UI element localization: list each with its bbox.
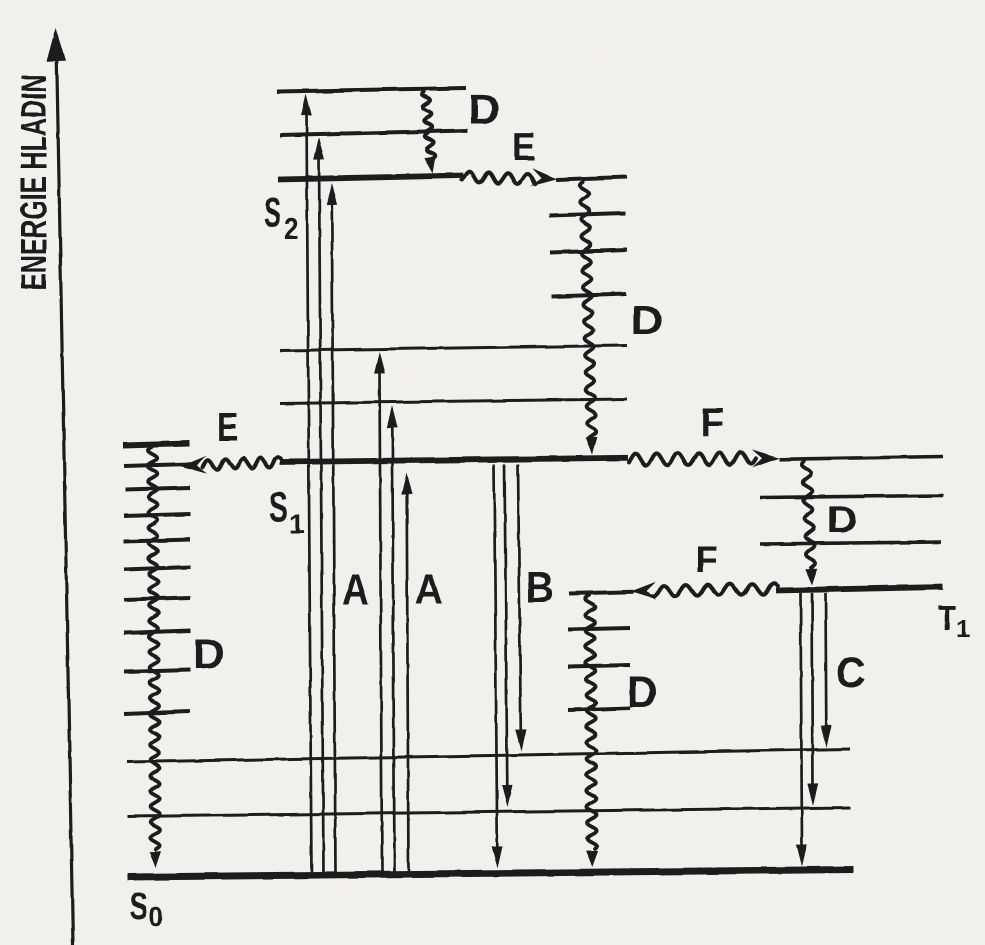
arrow A1 head — [301, 94, 312, 116]
svg-text:D: D — [631, 298, 663, 343]
arrow C2 head — [807, 783, 818, 805]
arrow A6 head — [401, 473, 412, 495]
svg-text:1: 1 — [289, 508, 304, 539]
level s0-left2 — [124, 464, 190, 466]
arrow A1 shaft — [307, 113, 312, 873]
arrow A5 shaft — [392, 424, 394, 873]
level s1-v2 long — [280, 346, 627, 351]
arrow B3 shaft — [518, 464, 521, 733]
arrowhead D T1 cascade — [805, 569, 817, 585]
wavy relaxation D left cascade — [148, 447, 160, 849]
arrow A4 shaft — [380, 370, 383, 873]
level s1-v1 long — [280, 399, 627, 404]
wavy arrow E top — [462, 172, 536, 185]
level S0 — [127, 870, 853, 878]
level mid-1 — [569, 592, 633, 594]
wavy relaxation D middle cascade — [585, 595, 597, 849]
arrowhead E top — [531, 168, 558, 186]
arrowhead D middle cascade — [586, 851, 598, 867]
level s1-v4 — [550, 250, 627, 253]
level mid-4 — [568, 708, 630, 710]
svg-text:S: S — [269, 483, 288, 531]
svg-text:D: D — [193, 631, 225, 678]
arrow B1 shaft — [494, 464, 497, 849]
level t1-v2 — [760, 496, 943, 498]
arrowhead D right cascade — [586, 437, 598, 454]
svg-text:D: D — [827, 500, 858, 541]
arrow A2 head — [314, 138, 325, 160]
arrow A4 head — [374, 352, 385, 374]
wavy relaxation D second segment — [425, 133, 435, 158]
level S1 — [280, 458, 628, 462]
arrow C1 shaft — [801, 593, 803, 848]
y-axis arrowhead — [47, 28, 66, 61]
arrowhead F lower — [630, 582, 656, 600]
svg-text:0: 0 — [149, 901, 163, 932]
level T1 — [776, 587, 943, 591]
arrow B2 head — [502, 785, 513, 807]
svg-text:E: E — [217, 404, 238, 449]
arrow B1 head — [492, 846, 503, 868]
arrow A3 head — [326, 183, 337, 205]
svg-text:S: S — [129, 886, 148, 928]
wavy relaxation D T1 cascade — [802, 461, 816, 568]
arrow A5 head — [387, 406, 398, 428]
arrow A2 shaft — [319, 156, 324, 873]
level mid-2 — [568, 628, 630, 630]
svg-text:F: F — [695, 538, 718, 580]
level S2 v2 line — [277, 88, 466, 92]
wavy relaxation D top segment — [422, 92, 432, 132]
svg-text:D: D — [627, 669, 658, 717]
wavy relaxation D right cascade — [580, 182, 597, 438]
level s0-left6 — [124, 567, 190, 570]
level mid-3 — [568, 665, 630, 667]
arrowhead D left cascade — [150, 851, 162, 867]
arrow C3 head — [821, 725, 832, 747]
level S2 v1 line — [280, 131, 467, 136]
svg-text:1: 1 — [956, 616, 970, 644]
level s1-v5 — [549, 213, 626, 216]
level s0-left9 — [124, 670, 190, 672]
svg-text:D: D — [468, 87, 500, 133]
arrow C3 shaft — [824, 593, 827, 729]
svg-text:E: E — [512, 124, 535, 168]
level s0-left5 — [124, 540, 190, 542]
level s0-left top (thick) — [123, 444, 189, 446]
svg-text:S: S — [264, 190, 281, 236]
svg-text:F: F — [700, 399, 724, 446]
svg-text:A: A — [415, 565, 442, 614]
level s0-left8 — [124, 631, 190, 634]
arrowhead F upper — [752, 450, 779, 468]
wavy arrow E left — [203, 457, 281, 470]
arrowhead D top — [424, 156, 436, 174]
arrowhead E left — [181, 456, 208, 474]
y-axis line — [57, 46, 74, 945]
svg-text:C: C — [836, 648, 865, 696]
level s0-left7 — [124, 598, 190, 600]
svg-text:B: B — [526, 563, 553, 612]
level s0-left4 — [124, 514, 190, 516]
wavy arrow F upper — [629, 452, 756, 465]
level s1-v3 — [552, 294, 626, 297]
svg-text:ENERGIE HLADIN: ENERGIE HLADIN — [14, 74, 55, 290]
svg-text:2: 2 — [284, 212, 298, 247]
level s0-v2 long — [127, 749, 850, 762]
arrow A6 shaft — [407, 491, 409, 873]
level s1-v6 — [556, 177, 627, 180]
level s0-left3 — [125, 488, 190, 490]
arrow A3 shaft — [332, 202, 336, 873]
svg-text:A: A — [342, 565, 369, 614]
level s0-v1 long — [127, 808, 850, 817]
arrow C1 head — [796, 844, 807, 866]
svg-text:T: T — [938, 599, 957, 638]
level t1-v1 — [760, 542, 941, 544]
level t1-v3 — [779, 457, 943, 460]
arrow C2 shaft — [812, 593, 813, 787]
level S2 — [278, 176, 463, 180]
level s0-left10 — [124, 712, 190, 715]
arrow B3 head — [515, 729, 526, 751]
wavy arrow F lower — [652, 583, 778, 596]
arrow B2 shaft — [505, 464, 508, 788]
